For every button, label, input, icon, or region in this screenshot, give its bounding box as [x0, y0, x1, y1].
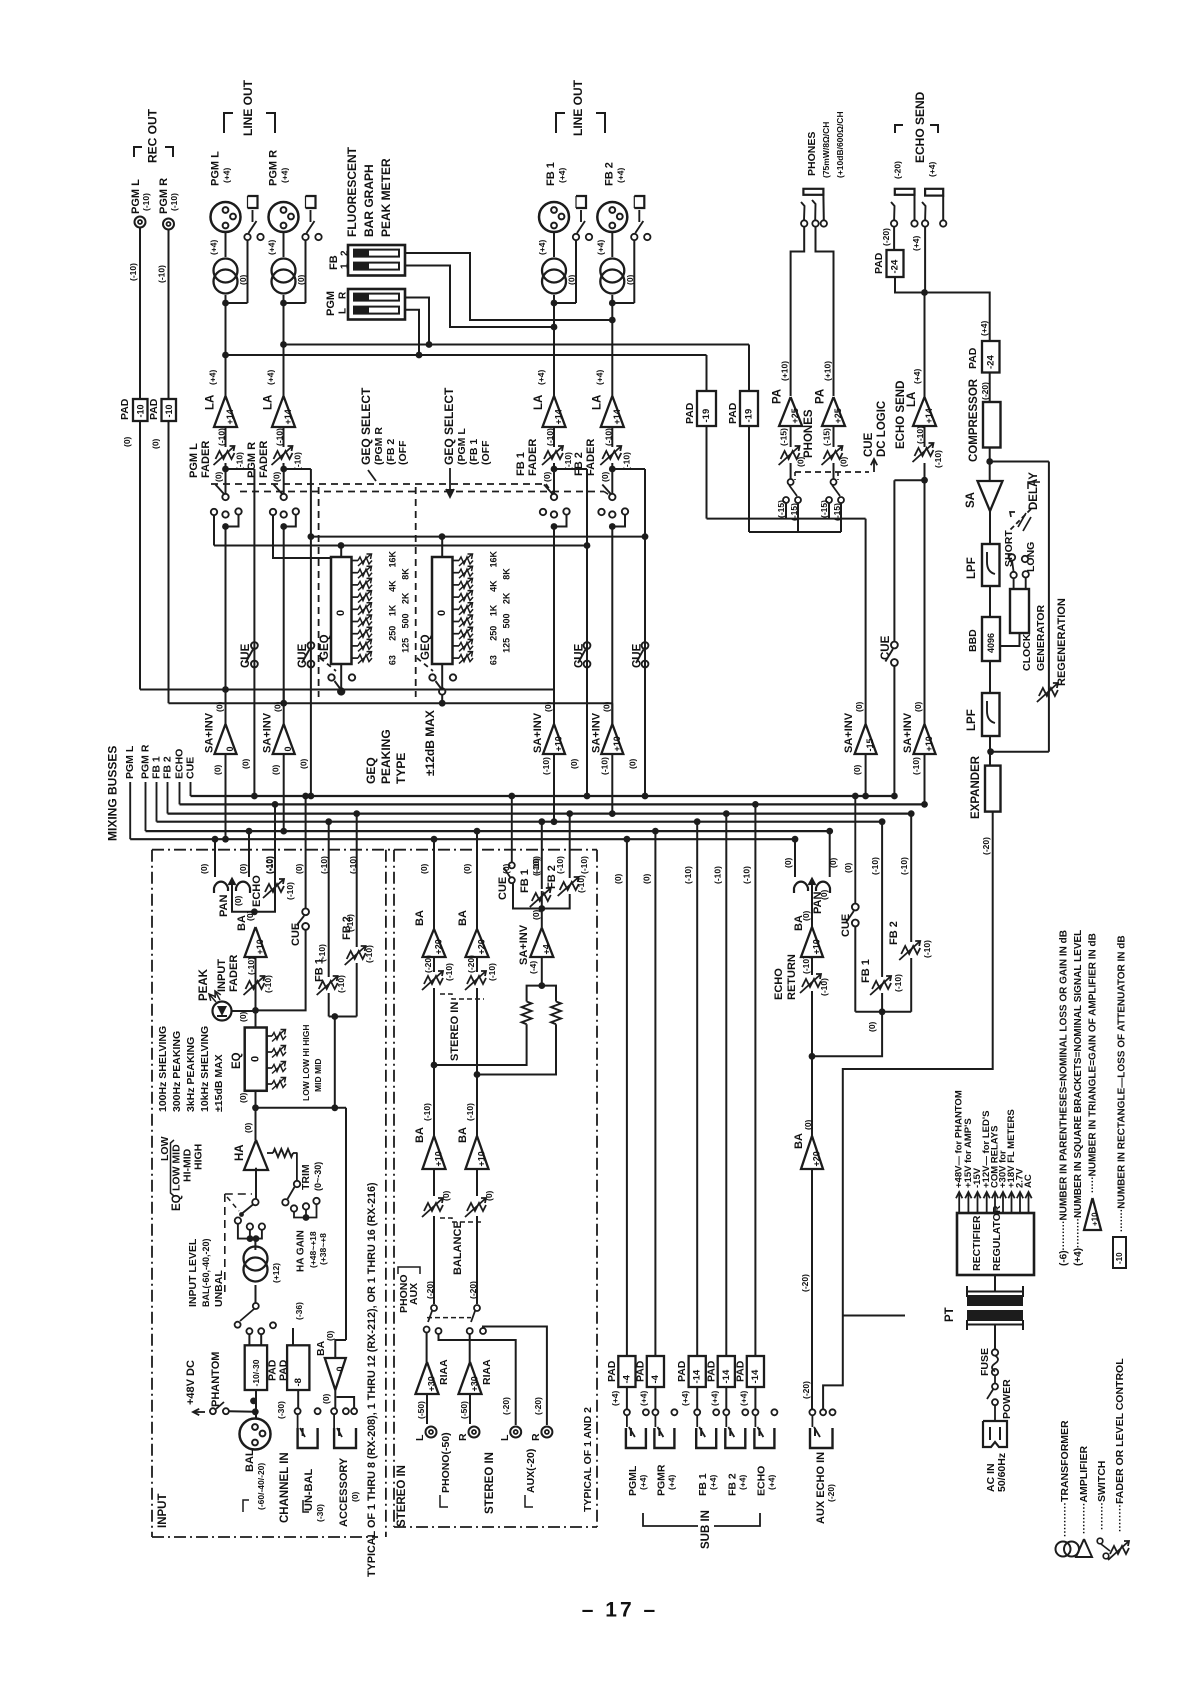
svg-text:(+4): (+4) [709, 1390, 719, 1406]
wire dashed GEQ module boundary left [318, 487, 320, 697]
svg-text:STEREO IN: STEREO IN [396, 1465, 408, 1527]
svg-text:(PGM R: (PGM R [373, 427, 385, 465]
svg-text:(-10): (-10) [217, 428, 227, 446]
legend switch symbol [1097, 1538, 1103, 1544]
junction echo send / compressor tap [921, 289, 928, 296]
switch trim [296, 1152, 298, 1180]
pan symbol echo return [794, 882, 808, 893]
svg-text:(-10): (-10) [683, 866, 693, 884]
svg-text:LPF: LPF [966, 557, 978, 579]
svg-text:·····NUMBER IN TRIANGLE=GAIN O: ·····NUMBER IN TRIANGLE=GAIN OF AMPLIFIE… [1088, 933, 1099, 1193]
junction echo return delay tap [809, 1053, 816, 1060]
svg-text:(0): (0) [325, 1330, 335, 1341]
junction cue taps on CUE bus [251, 793, 258, 800]
svg-text:(-20): (-20) [533, 1397, 543, 1415]
svg-text:PHONO(-50): PHONO(-50) [440, 1432, 452, 1493]
legend triangle note [1084, 1198, 1101, 1230]
svg-text:PGM R: PGM R [268, 150, 280, 186]
wire rec out R [168, 230, 170, 399]
svg-text:FB 2: FB 2 [603, 162, 615, 186]
svg-text:PHONES: PHONES [806, 132, 818, 176]
wire SUB IN FB 2 from bus [725, 814, 727, 1356]
svg-text:PGM L: PGM L [124, 745, 136, 779]
svg-text:FB: FB [328, 255, 340, 270]
svg-text:(-10): (-10) [545, 428, 555, 446]
svg-text:HA GAIN: HA GAIN [296, 1230, 307, 1272]
wire + junction below transformer PGM R [283, 295, 285, 303]
fader PGM L FADER [225, 427, 227, 447]
svg-text:(+4): (+4) [738, 1390, 748, 1406]
wire XLR to transformer PGM R [283, 232, 285, 257]
svg-text:2K: 2K [401, 592, 411, 604]
svg-text:CLOCK: CLOCK [1021, 633, 1033, 671]
connector echo send jack 2 [925, 189, 943, 196]
wire echo return send bar [855, 1011, 911, 1013]
svg-text:SUB IN: SUB IN [700, 1510, 712, 1549]
svg-text:ECHO SEND: ECHO SEND [913, 91, 927, 163]
svg-text:(-20): (-20) [800, 1274, 810, 1292]
terminal AUX R [541, 1427, 552, 1438]
svg-text:AUX(-20): AUX(-20) [525, 1449, 537, 1493]
svg-text:UNBAL: UNBAL [213, 1270, 225, 1307]
svg-text:FB 2: FB 2 [162, 756, 174, 779]
wire clock generator to BBD [1000, 633, 1020, 646]
svg-text:(-10): (-10) [576, 875, 586, 893]
legend rectangle note [1113, 1237, 1126, 1268]
wire GEQ box top [340, 546, 342, 558]
svg-text:(-10): (-10) [319, 856, 329, 874]
fader echo send [924, 426, 926, 447]
junction PGM R post fader [280, 466, 287, 473]
block COMPRESSOR [989, 373, 991, 403]
svg-text:(+4): (+4) [536, 369, 546, 385]
svg-text:(-20): (-20) [425, 1281, 435, 1299]
switch stereo source select R [474, 1305, 480, 1311]
wire PGM L down to amp [225, 303, 227, 396]
switch GEQ bypass [441, 664, 443, 688]
transformer input [244, 1247, 268, 1271]
switch line out FB 2 [631, 234, 637, 240]
svg-text:250: 250 [388, 626, 398, 641]
svg-text:(-10): (-10) [712, 866, 722, 884]
svg-text:(0): (0) [600, 471, 610, 482]
junction PGM L post fader [222, 466, 229, 473]
svg-text:LA: LA [906, 392, 918, 407]
wire accessory return drop [345, 1108, 347, 1340]
svg-text:BA: BA [457, 1127, 469, 1143]
wire dashed GEQ select control line 1 [211, 483, 546, 485]
junction GEQ1 output [338, 688, 345, 695]
junction pre-EQ cue tap [252, 1007, 259, 1014]
svg-text:(FB 1: (FB 1 [468, 439, 480, 465]
wire SUB IN PGML from bus [626, 839, 628, 1356]
svg-text:FB 2: FB 2 [573, 452, 585, 476]
switch + jack SUB IN FB 2 [725, 1387, 727, 1409]
svg-text:(-36): (-36) [294, 1302, 304, 1320]
svg-text:PA: PA [772, 389, 784, 404]
svg-text:TYPICAL OF 1 AND 2: TYPICAL OF 1 AND 2 [582, 1407, 594, 1512]
wire PGM L cue feed [226, 468, 255, 470]
svg-text:GEQ: GEQ [319, 634, 331, 660]
svg-text:(-10): (-10) [264, 856, 274, 874]
transformer FB 1 line out [542, 259, 566, 283]
wire PGM R to phones pad (y=344.5) [284, 344, 750, 346]
svg-text:(0): (0) [441, 1190, 451, 1201]
svg-text:(-10): (-10) [603, 428, 613, 446]
svg-text:BAL(-60,-40,-20): BAL(-60,-40,-20) [201, 1238, 211, 1307]
svg-text:REGENERATION: REGENERATION [1056, 598, 1068, 686]
svg-text:FB 1: FB 1 [519, 869, 531, 893]
svg-text:(0): (0) [843, 862, 853, 873]
svg-text:PGM R: PGM R [246, 442, 258, 478]
svg-text:(0): (0) [419, 863, 429, 874]
wire FB sends join [329, 1016, 357, 1018]
wire bus PGM L [129, 782, 131, 839]
svg-text:(0): (0) [839, 456, 849, 467]
svg-text:– 17 –: – 17 – [582, 1599, 658, 1622]
svg-text:+10: +10 [612, 736, 622, 751]
svg-text:DC LOGIC: DC LOGIC [876, 401, 888, 457]
svg-text:PAD: PAD [727, 402, 739, 424]
junction echo send cue tap [921, 477, 928, 484]
svg-text:(-20): (-20) [423, 955, 433, 973]
svg-text:(0): (0) [613, 873, 623, 884]
svg-text:(-15): (-15) [819, 500, 829, 518]
wire echo return to sends [812, 1012, 882, 1057]
fader stereo gain R [476, 957, 478, 972]
svg-text:8K: 8K [401, 568, 411, 580]
wire FB2 branch right [612, 468, 645, 470]
svg-text:RECTIFIER: RECTIFIER [971, 1215, 983, 1271]
svg-text:(-15): (-15) [779, 428, 789, 446]
fader stereo FB1 send [532, 893, 551, 901]
switch phones source select 1 [788, 479, 794, 485]
terminal AUX L [510, 1427, 521, 1438]
contacts pad select [246, 1328, 252, 1334]
svg-text:10kHz SHELVING: 10kHz SHELVING [199, 1026, 211, 1112]
svg-text:-10/-30: -10/-30 [251, 1359, 261, 1386]
svg-text:(+12): (+12) [271, 1263, 281, 1283]
svg-text:(-6)·········NUMBER IN PARENTH: (-6)·········NUMBER IN PARENTHESES=NOMIN… [1059, 930, 1070, 1266]
svg-text:63: 63 [388, 655, 398, 665]
wire bus ECHO [179, 782, 181, 804]
svg-text:(+38~+8: (+38~+8 [318, 1233, 328, 1265]
wire PGM R down to amp [283, 303, 285, 396]
svg-text:PAD: PAD [734, 1360, 746, 1382]
svg-text:AUX: AUX [408, 1283, 420, 1305]
junction PGM L meter tap [222, 352, 229, 359]
svg-text:(+4): (+4) [708, 1474, 718, 1490]
wire summing amp PGM L to bus [225, 690, 227, 725]
junction compressor output [989, 448, 991, 482]
wire GEQ2 feed rail y=536.6 [311, 536, 645, 538]
svg-text:(+4): (+4) [266, 369, 276, 385]
svg-text:+20: +20 [812, 1151, 822, 1166]
connector echo send jack 1 [895, 189, 915, 195]
svg-text:(-10): (-10) [169, 193, 179, 211]
svg-text:(0): (0) [272, 471, 282, 482]
svg-text:(-10): (-10) [487, 963, 497, 981]
wire peak led to main line [232, 1010, 256, 1012]
svg-text:CUE: CUE [880, 635, 892, 660]
svg-text:(0): (0) [199, 863, 209, 874]
svg-text:(0): (0) [531, 909, 541, 920]
transformer PGM L line out [214, 259, 238, 283]
legend amplifier symbol [1076, 1539, 1092, 1557]
svg-text:(-10): (-10) [336, 975, 346, 993]
wire dashed GEQ module boundary right [415, 487, 417, 697]
connector phones jack [803, 189, 823, 195]
svg-text:(-50): (-50) [459, 1401, 469, 1419]
svg-text:-8: -8 [293, 1378, 304, 1386]
svg-text:(0): (0) [601, 701, 611, 712]
svg-text:(+10dB/600Ω/CH: (+10dB/600Ω/CH [835, 111, 845, 178]
wire dashed stereo gang [440, 994, 484, 999]
svg-text:125: 125 [502, 638, 512, 653]
switch echo return CUE [854, 926, 856, 1012]
svg-text:·······NUMBER IN RECTANGLE—LOS: ·······NUMBER IN RECTANGLE—LOSS OF ATTEN… [1117, 935, 1128, 1232]
wire regeneration feedback [991, 751, 1049, 753]
svg-text:(0): (0) [913, 701, 923, 712]
svg-text:(0): (0) [867, 1021, 877, 1032]
svg-text:(-10): (-10) [579, 856, 589, 874]
svg-text:(-10): (-10) [157, 265, 167, 283]
wire phones jack to PA amps [791, 227, 805, 396]
junction below transformer FB 1 [553, 295, 555, 303]
wire phones feed rail 1 y=518.6 [707, 518, 866, 520]
wire SUB IN FB 1 from bus [696, 822, 698, 1356]
svg-text:RIAA: RIAA [481, 1359, 493, 1385]
svg-text:(-20): (-20) [468, 1281, 478, 1299]
switch echo send jack 2 [922, 220, 928, 226]
svg-text:-24: -24 [985, 355, 996, 369]
svg-text:2K: 2K [502, 592, 512, 604]
block LPF 2 [989, 661, 991, 693]
svg-text:PAD: PAD [634, 1360, 646, 1382]
svg-text:AC: AC [1023, 1174, 1034, 1188]
svg-text:········FADER OR LEVEL CONTROL: ········FADER OR LEVEL CONTROL [1114, 1358, 1126, 1532]
svg-text:(0): (0) [213, 764, 223, 775]
svg-text:(0): (0) [542, 471, 552, 482]
svg-text:(OFF: (OFF [397, 440, 409, 465]
svg-text:TRIM: TRIM [300, 1164, 312, 1190]
fader stereo gain L [433, 957, 435, 972]
fader ECHO input send [265, 884, 284, 892]
wire cue summing output to phones rail [865, 519, 867, 724]
svg-text:(-10): (-10) [531, 858, 541, 876]
svg-text:2: 2 [340, 250, 351, 256]
svg-text:+10: +10 [554, 736, 564, 751]
svg-text:(+4): (+4) [267, 239, 277, 255]
wire AUX L to selector [439, 1334, 516, 1425]
svg-text:DELAY: DELAY [1028, 472, 1040, 510]
svg-text:BA: BA [793, 1133, 805, 1149]
svg-text:SHORT: SHORT [1003, 530, 1015, 567]
transformer PGM R line out [272, 259, 296, 283]
op-amp BA +10 echo return [811, 892, 813, 927]
svg-text:-14: -14 [721, 1369, 732, 1383]
svg-text:SA+INV: SA+INV [262, 712, 274, 753]
svg-text:PAD: PAD [705, 1360, 717, 1382]
svg-text:STEREO IN: STEREO IN [484, 1452, 496, 1514]
wire echo send cue branch [894, 479, 924, 481]
svg-text:FADER: FADER [200, 441, 212, 478]
svg-text:REGULATOR: REGULATOR [991, 1205, 1003, 1271]
svg-text:INPUT: INPUT [216, 959, 228, 992]
svg-text:+10: +10 [477, 1151, 487, 1166]
svg-text:SA+INV: SA+INV [843, 712, 855, 753]
svg-text:(-50): (-50) [416, 1401, 426, 1419]
svg-text:(0): (0) [151, 438, 161, 449]
pad PAD -8 input [292, 1328, 294, 1345]
resistor stereo R mono sum [477, 1024, 556, 1074]
svg-text:PT: PT [944, 1307, 956, 1322]
connector XLR PGM R line out [269, 202, 299, 232]
svg-text:+14: +14 [554, 409, 564, 424]
boundary INPUT section dash-dot [152, 849, 597, 851]
svg-text:··········TRANSFORMER: ··········TRANSFORMER [1059, 1420, 1071, 1537]
svg-text:(-10): (-10) [741, 866, 751, 884]
wire summing amp FB 1 to bus [553, 690, 555, 725]
block BBD 4096 [989, 586, 991, 617]
wire expander output to aux echo [823, 812, 993, 1409]
svg-text:EXPANDER: EXPANDER [970, 755, 982, 819]
svg-text:+10: +10 [1091, 1212, 1100, 1226]
resistor TRIM [273, 1149, 293, 1157]
fader stereo FB2 send [542, 894, 570, 909]
svg-text:(-10): (-10) [141, 193, 151, 211]
svg-text:(-20): (-20) [881, 228, 891, 246]
svg-text:(-10): (-10) [263, 975, 273, 993]
resistor taps GEQ [453, 560, 460, 562]
wire dashed selector boundary [224, 1194, 226, 1292]
svg-text:(-20): (-20) [466, 955, 476, 973]
svg-text:8K: 8K [502, 568, 512, 580]
svg-text:BA: BA [414, 1127, 426, 1143]
wire PGM meter to PGM L line [405, 310, 419, 355]
terminal PHONO L [426, 1427, 437, 1438]
svg-text:(0): (0) [241, 758, 251, 769]
svg-text:(+4): (+4) [638, 1474, 648, 1490]
svg-text:+25: +25 [833, 408, 843, 423]
svg-text:GENERATOR: GENERATOR [1035, 604, 1047, 671]
svg-text:R: R [457, 1433, 469, 1441]
wire echo send vertical [924, 227, 926, 293]
svg-text:(-20): (-20) [801, 1381, 811, 1399]
svg-text:4096: 4096 [986, 633, 996, 653]
wire aux echo stub [843, 1315, 905, 1317]
switch GEQ bypass [340, 664, 342, 688]
svg-text:PAN: PAN [218, 895, 230, 917]
svg-text:EQ: EQ [171, 1194, 183, 1211]
switch phantom power [193, 1411, 205, 1413]
svg-text:(+4): (+4) [594, 369, 604, 385]
wire PGM R bypass to GEQ2 feed [284, 468, 311, 470]
svg-text:-4: -4 [621, 1374, 632, 1383]
svg-text:LA: LA [205, 395, 217, 410]
svg-text:BA: BA [414, 910, 426, 926]
svg-text:FADER: FADER [258, 441, 270, 478]
switch input level selector [252, 1199, 258, 1205]
svg-text:(-10): (-10) [915, 426, 925, 444]
svg-text:PAD: PAD [148, 398, 160, 420]
svg-text:+20: +20 [434, 939, 444, 954]
svg-text:(OFF: (OFF [480, 440, 492, 465]
svg-text:(+4): (+4) [680, 1390, 690, 1406]
svg-text:R: R [530, 1433, 542, 1441]
svg-text:+10: +10 [812, 939, 822, 954]
wire FB meter to FB1 junction [405, 266, 554, 328]
wire GEQ1 return rail y=689.5-691.4 [226, 689, 554, 691]
svg-text:(0): (0) [803, 1119, 813, 1130]
svg-text:BALANCE: BALANCE [452, 1221, 464, 1275]
connector jack PGM R line out [306, 196, 316, 208]
wire echo send to summing amp [924, 480, 926, 724]
wire dashed GEQ select control line 2 [240, 491, 604, 493]
svg-text:+14: +14 [225, 409, 235, 424]
svg-text:(-30): (-30) [315, 1504, 325, 1522]
wire GEQ1 feed rail y=545.5 [214, 545, 587, 547]
wire accessory return [337, 1397, 355, 1408]
svg-text:FB 1: FB 1 [515, 452, 527, 476]
svg-text:HA: HA [234, 1144, 246, 1161]
svg-text:(0): (0) [484, 1190, 494, 1201]
wire dashed to GEQ2 bypass switch [417, 658, 433, 671]
svg-text:L: L [499, 1434, 511, 1441]
svg-text:(0): (0) [641, 873, 651, 884]
svg-text:300Hz PEAKING: 300Hz PEAKING [171, 1031, 183, 1112]
junction FB 1 post fader [551, 466, 558, 473]
svg-text:CUE: CUE [497, 877, 509, 900]
svg-text:(-10): (-10) [275, 428, 285, 446]
svg-text:PEAK METER: PEAK METER [379, 158, 393, 237]
svg-text:0: 0 [225, 746, 235, 751]
svg-text:PEAK: PEAK [198, 968, 210, 1001]
svg-text:(+4): (+4) [557, 167, 567, 183]
svg-text:63: 63 [489, 655, 499, 665]
svg-text:(-10): (-10) [933, 450, 943, 468]
svg-text:-10: -10 [135, 404, 145, 417]
svg-text:FB 1: FB 1 [545, 162, 557, 186]
switch HA gain select [291, 1205, 297, 1211]
svg-text:(+4): (+4) [979, 320, 989, 336]
svg-text:(+4): (+4) [209, 239, 219, 255]
switch line out PGM R [302, 234, 308, 240]
svg-text:16K: 16K [489, 550, 499, 567]
svg-text:±15dB MAX: ±15dB MAX [213, 1054, 225, 1112]
svg-text:(-20): (-20) [826, 1484, 836, 1502]
block LPF 1 [989, 511, 991, 544]
svg-text:-24: -24 [890, 259, 901, 273]
svg-text:BA: BA [315, 1340, 327, 1356]
svg-text:UN-BAL: UN-BAL [303, 1469, 315, 1511]
svg-text:PAD: PAD [119, 398, 131, 420]
wire rec out L [139, 228, 141, 399]
svg-text:(0): (0) [350, 1491, 360, 1502]
svg-text:(-10): (-10) [235, 452, 245, 470]
svg-text:PAD: PAD [684, 402, 696, 424]
svg-text:PGM L: PGM L [210, 151, 222, 186]
svg-text:FUSE: FUSE [979, 1348, 991, 1376]
wire dashed to GEQ1 bypass switch [320, 658, 336, 671]
svg-text:(+4): (+4) [766, 1474, 776, 1490]
connector jack FB 1 line out [576, 196, 586, 208]
svg-text:(-60/-40/-20): (-60/-40/-20) [256, 1463, 266, 1510]
connector ACCESSORY jack [334, 1428, 356, 1448]
svg-text:500: 500 [502, 613, 512, 628]
svg-text:PAD: PAD [676, 1360, 688, 1382]
svg-text:0: 0 [335, 610, 347, 616]
